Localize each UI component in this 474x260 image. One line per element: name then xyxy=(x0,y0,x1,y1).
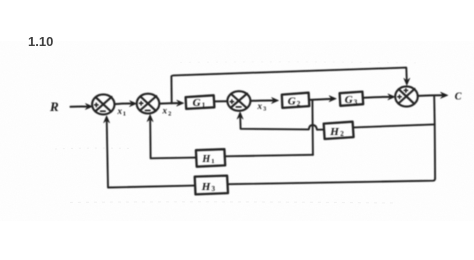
wire H1 to summer S2 xyxy=(150,119,196,159)
wire G2 to block G3 (with takeoff node after G2) xyxy=(310,99,333,100)
svg-text:3: 3 xyxy=(354,99,358,107)
svg-text:G: G xyxy=(345,94,353,106)
wire from takeoff to block H2 xyxy=(354,124,435,127)
svg-text:G: G xyxy=(288,95,296,107)
S2 minus sign (bottom input) xyxy=(145,109,150,111)
S1 minus sign (bottom input) xyxy=(101,110,106,112)
node C output label xyxy=(455,92,462,103)
wire S2 to block G1 (with x2 takeoff node) xyxy=(159,102,179,105)
summing junction S2 xyxy=(137,94,160,114)
svg-text:3: 3 xyxy=(263,107,266,113)
block G1 xyxy=(186,95,215,109)
svg-text:x: x xyxy=(257,101,263,111)
svg-text:1: 1 xyxy=(211,158,214,165)
wire H2 to summer S3 (hops over the G2 takeoff wire) xyxy=(240,116,323,130)
summing junction S3 xyxy=(227,91,250,111)
svg-text:3: 3 xyxy=(212,185,216,193)
scan noise background xyxy=(55,62,420,203)
wire H3 to summer S1 xyxy=(107,120,195,188)
svg-text:1: 1 xyxy=(123,111,126,118)
wire output takeoff to block H3 xyxy=(228,178,435,184)
wire takeoff after G2 down to H1 line xyxy=(311,100,314,155)
svg-text:1: 1 xyxy=(202,102,206,110)
S2 plus sign (left input) xyxy=(139,102,142,105)
wire G1 to summer S3 xyxy=(215,100,227,102)
wire from G2 takeoff to block H1 xyxy=(225,155,313,157)
node x1 label xyxy=(117,106,127,118)
svg-text:G: G xyxy=(193,97,201,109)
wire G3 to summer S4 xyxy=(363,96,391,99)
node R input label xyxy=(49,99,59,114)
S1 plus sign (left input) xyxy=(95,103,98,106)
summing junction S1 xyxy=(92,94,114,114)
svg-text:2: 2 xyxy=(297,100,301,108)
svg-text:R: R xyxy=(49,99,59,114)
S4 plus sign (left input) xyxy=(398,95,401,98)
wire S1 to summer S2 xyxy=(115,103,133,106)
wire output takeoff down (feeds H2 and H3) xyxy=(433,96,436,179)
node x3 label xyxy=(257,101,267,113)
svg-text:H: H xyxy=(201,154,211,165)
block H3 xyxy=(195,176,228,195)
block G2 xyxy=(282,93,310,108)
svg-text:2: 2 xyxy=(168,112,171,118)
S3 plus sign (left input) xyxy=(230,100,233,103)
summing junction S4 xyxy=(395,86,418,106)
block H1 xyxy=(196,149,225,167)
wire feedforward x2 takeoff up and across top to summer S4 xyxy=(171,68,406,104)
wire R to summer S1 xyxy=(71,105,89,107)
svg-text:H: H xyxy=(201,181,211,193)
S3 minus sign (bottom input) xyxy=(236,106,241,108)
svg-text:H: H xyxy=(329,126,339,138)
svg-text:C: C xyxy=(455,92,462,103)
svg-text:x: x xyxy=(162,106,168,116)
block H2 xyxy=(324,122,354,139)
svg-text:2: 2 xyxy=(340,130,344,138)
wire S3 to block G2 xyxy=(251,99,275,101)
caption 1.10 xyxy=(28,34,53,49)
wire S4 to output C (with takeoff node) xyxy=(418,94,444,97)
block G3 xyxy=(340,92,364,106)
svg-text:x: x xyxy=(117,106,123,116)
node x2 label xyxy=(162,106,172,118)
S4 plus sign (top input) xyxy=(404,89,407,92)
